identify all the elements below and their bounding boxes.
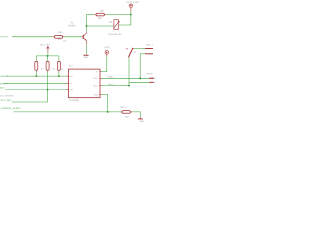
svg-text:GND: GND: [84, 56, 89, 59]
svg-text:CURRENT_SENCE: CURRENT_SENCE: [1, 107, 22, 110]
svg-text:OUT2: OUT2: [93, 84, 99, 87]
svg-text:VCC +5V: VCC +5V: [40, 44, 51, 47]
svg-text:DCC_RET: DCC_RET: [1, 99, 13, 102]
svg-text:BO1: BO1: [0, 82, 5, 85]
svg-text:GND: GND: [140, 120, 145, 123]
svg-text:SHUNT: SHUNT: [0, 75, 9, 78]
svg-text:Amp_1: Amp_1: [108, 76, 115, 79]
svg-text:DCC RETURN: DCC RETURN: [0, 95, 14, 98]
svg-text:FROG: FROG: [0, 36, 8, 39]
svg-text:+12V: +12V: [104, 46, 110, 49]
svg-text:TURN-ON TDY: TURN-ON TDY: [108, 33, 122, 36]
svg-text:RAL_1: RAL_1: [146, 43, 153, 46]
svg-text:GND: GND: [94, 93, 99, 96]
svg-text:OUT1: OUT1: [93, 77, 99, 80]
svg-text:VCC +12V: VCC +12V: [127, 1, 140, 4]
svg-text:BC547: BC547: [69, 24, 77, 27]
svg-text:BO2: BO2: [0, 86, 5, 89]
svg-text:Cmp_1: Cmp_1: [108, 83, 116, 86]
svg-text:IN-: IN-: [70, 82, 73, 85]
svg-text:R8 0.1: R8 0.1: [120, 106, 127, 109]
svg-text:TLC2262(1): TLC2262(1): [69, 99, 80, 102]
svg-text:IC1: IC1: [69, 64, 73, 67]
svg-text:PROG: PROG: [146, 73, 153, 76]
